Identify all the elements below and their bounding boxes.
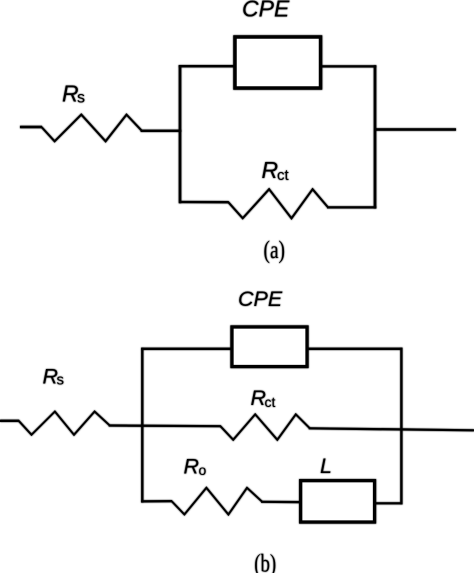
svg-text:(b): (b): [254, 551, 276, 573]
svg-text:R: R: [184, 455, 200, 479]
svg-text:L: L: [320, 454, 332, 478]
svg-text:R: R: [262, 157, 279, 183]
svg-text:o: o: [199, 462, 207, 478]
svg-text:CPE: CPE: [242, 0, 290, 22]
svg-text:(a): (a): [264, 237, 286, 264]
svg-text:s: s: [57, 371, 65, 388]
svg-text:CPE: CPE: [238, 287, 283, 311]
svg-text:ct: ct: [277, 167, 290, 184]
svg-text:ct: ct: [265, 394, 276, 410]
svg-text:s: s: [77, 90, 85, 107]
